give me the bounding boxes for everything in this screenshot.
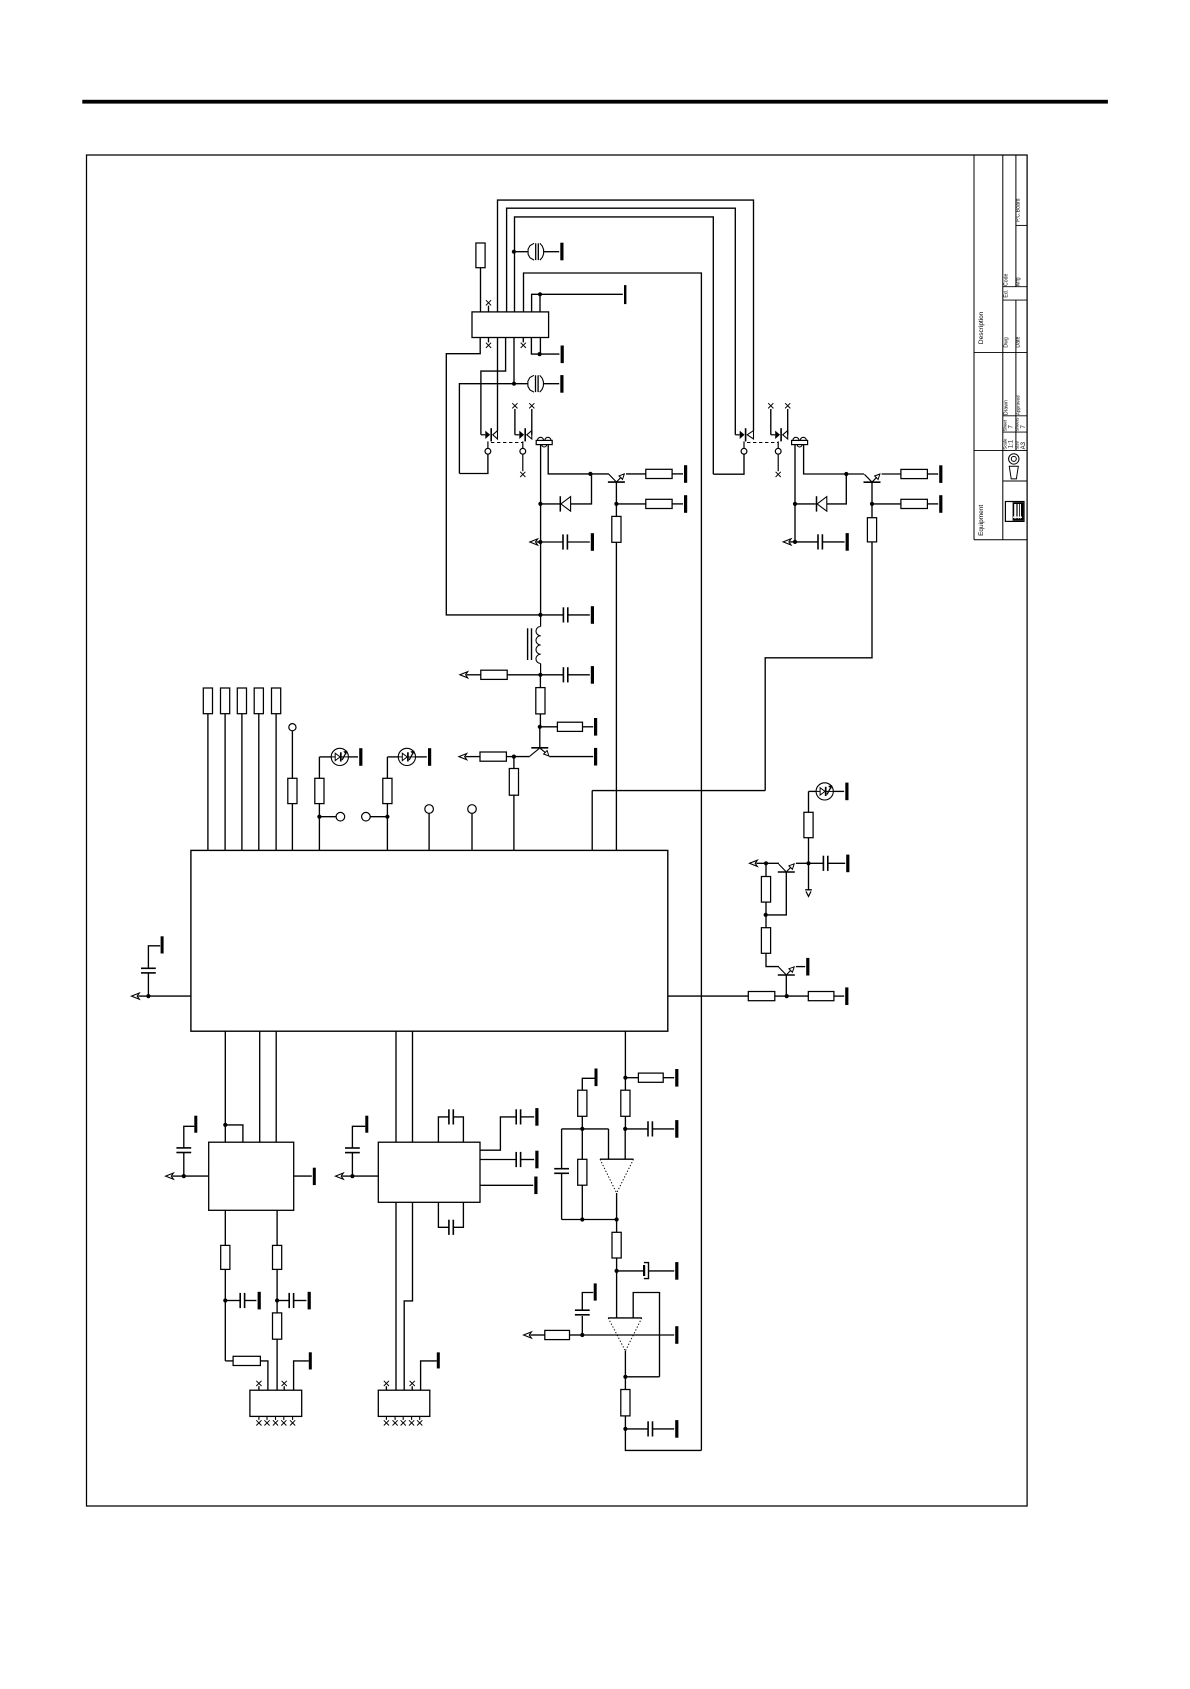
resistor R30 <box>221 1245 230 1269</box>
wire U2 out <box>616 1193 618 1220</box>
pin stub x (L conn b) <box>410 1381 415 1390</box>
resistor R36 <box>761 928 770 954</box>
wire U1 pin b4 <box>395 1031 397 1142</box>
resistor R23 <box>638 1073 663 1082</box>
wire Q6 stem <box>785 975 787 996</box>
wire D1 left <box>540 503 559 505</box>
connector pair P4 circle <box>775 441 781 477</box>
ground bar (C8) <box>675 1120 678 1138</box>
wire R31 to conn <box>260 1361 268 1390</box>
wire R12 to IC <box>513 795 515 850</box>
wire FL2 right pin <box>804 445 864 474</box>
capacitor C19 <box>516 1152 520 1167</box>
capacitor C5 <box>563 607 567 622</box>
wire C7 riser <box>147 973 149 996</box>
wire L top cap loop b <box>453 1117 463 1142</box>
wire U4 b1 <box>224 1210 226 1245</box>
wire FL2 left pin down <box>794 445 796 542</box>
off-page arrow A1 <box>530 539 541 545</box>
wire Q2 to R6 <box>872 503 901 505</box>
capacitor C7 <box>141 968 156 973</box>
wire to R23 <box>625 1077 638 1079</box>
node coil top junction <box>538 613 542 617</box>
wire D4 right <box>415 756 427 758</box>
LED D5 <box>816 783 833 800</box>
resistor R2 <box>646 469 672 478</box>
node M3 <box>580 1127 584 1131</box>
ground bar (top rail) <box>624 285 626 304</box>
wire D5 branch down <box>808 791 810 812</box>
wire M bottom rail <box>562 1219 617 1221</box>
resistor R21 <box>748 992 775 1001</box>
node Q1 base tap <box>588 472 592 476</box>
ground bar (R10) <box>594 718 597 736</box>
resistor R32 <box>273 1245 282 1269</box>
wire C5 feed <box>540 614 563 616</box>
wire R34 down <box>808 838 810 864</box>
wire R26 down <box>581 1185 583 1219</box>
ground bar (C1) <box>560 243 563 261</box>
IC U4 (sub block) <box>209 1142 294 1210</box>
wire F1 down <box>291 731 293 779</box>
ground bar (M7) <box>675 1326 678 1344</box>
svg-text:Scale: Scale <box>1002 438 1007 450</box>
wire U5 r1 <box>480 1117 516 1150</box>
node Q2 base tap <box>844 472 848 476</box>
off-page arrow A10 <box>750 860 767 866</box>
off-page arrow A7 <box>166 1173 184 1179</box>
svg-text:Dwg: Dwg <box>1004 337 1010 347</box>
wire C1 feed <box>515 251 529 253</box>
ground bar (C14) <box>258 1292 261 1310</box>
ground bar (C5) <box>591 606 594 624</box>
wire R13 to IC <box>207 714 209 851</box>
capacitor C9 <box>554 1169 569 1174</box>
ground bar (C7) <box>161 936 164 953</box>
wire F5 to IC <box>471 813 473 850</box>
wire C1 to ground <box>544 251 560 253</box>
node bus5/bus6 junction <box>538 292 542 296</box>
wire D1 right up <box>571 474 592 504</box>
connector pair P2 <box>515 428 532 441</box>
resistor R6 <box>901 499 928 508</box>
pin circle F4 <box>425 805 434 814</box>
wire C6 feed <box>540 674 563 676</box>
wire to F3 circle <box>370 816 387 818</box>
wire M8 down <box>624 1377 626 1390</box>
wire D4 branch down <box>386 757 388 778</box>
wire R29 down <box>624 1416 626 1429</box>
ground bar (C15) <box>308 1292 311 1310</box>
wire to R31 <box>225 1360 233 1362</box>
resistor R15 (pull stack) <box>237 688 246 714</box>
wire C8 to ground <box>652 1128 674 1130</box>
ground bar (D5) <box>845 783 848 801</box>
node D1 left junction <box>538 502 542 506</box>
wire J4 to Q4 <box>766 862 779 864</box>
wire R7 down route <box>765 542 872 791</box>
resistor R12 <box>509 769 518 796</box>
pin stub x (box bottom 6) <box>521 338 526 348</box>
node M1 <box>623 1076 627 1080</box>
resistor R11 <box>480 752 506 761</box>
wire K1 to U4 <box>184 1175 209 1177</box>
svg-text:Equipment: Equipment <box>978 505 985 536</box>
wire node to R22 <box>787 995 809 997</box>
wire K gnd pin <box>294 1361 309 1390</box>
wire U1 to Q6 rail <box>668 995 749 997</box>
capacitor C10 (polarized) <box>617 1263 675 1279</box>
resistor R16 (pull stack) <box>254 688 263 714</box>
wire J4 down <box>765 863 767 876</box>
svg-text:Mfg: Mfg <box>1016 277 1022 286</box>
node J5 <box>806 861 810 865</box>
connector pair P4 wires up <box>768 403 790 435</box>
wire L bottom cap loop <box>438 1202 449 1227</box>
wire R1 to box <box>480 268 482 312</box>
svg-text:Approved: Approved <box>1016 395 1021 415</box>
wire C5 to ground <box>568 614 590 616</box>
resistor R10 <box>557 722 582 731</box>
title block outline <box>974 155 1027 540</box>
transistor Q2 <box>864 474 881 482</box>
wire C3 to ground <box>567 541 589 543</box>
connector pair P1 circle <box>459 441 490 473</box>
node M2 <box>623 1127 627 1131</box>
wire C18 to ground <box>521 1116 535 1118</box>
page top rule <box>82 100 1108 104</box>
ground bar (C11) <box>594 1283 597 1300</box>
svg-text:P.C.Board: P.C.Board <box>1016 198 1022 221</box>
capacitor C12 <box>648 1421 652 1436</box>
wire pin7 <box>531 338 539 355</box>
node U1 left junction <box>146 994 150 998</box>
wire K2 down <box>224 1301 226 1361</box>
inductor T1 coil <box>536 615 541 675</box>
ground bar (D4) <box>428 748 431 766</box>
svg-text:Size: Size <box>1015 441 1020 450</box>
capacitor C6 <box>563 667 567 682</box>
capacitor C1 (electrolytic) <box>528 243 544 260</box>
resistor R29 <box>621 1390 630 1416</box>
wire Q2 stem <box>871 482 873 504</box>
wire U4 right pin <box>294 1175 312 1177</box>
resistor R24 <box>621 1090 630 1116</box>
wire Q3 stem <box>539 727 541 748</box>
node Q1 stem junction <box>614 502 618 506</box>
wire D5 right <box>833 790 844 792</box>
node Q2 stem junction <box>870 502 874 506</box>
resistor R26 <box>578 1159 587 1185</box>
wire C15 to ground <box>294 1300 307 1302</box>
capacitor C8 <box>648 1121 652 1136</box>
wire R10 feed <box>540 726 558 728</box>
wire C2 to ground <box>543 383 559 385</box>
node coil bottom junction <box>538 673 542 677</box>
node K bridge junction <box>223 1123 227 1127</box>
resistor R22 <box>808 992 834 1001</box>
wire R24 down <box>624 1116 626 1129</box>
node J6 <box>764 913 768 917</box>
off-page arrow A2 <box>783 539 795 545</box>
ground bar (Q6) <box>806 958 809 976</box>
wire R22 to ground <box>834 995 844 997</box>
wire C12 feed <box>625 1428 648 1430</box>
wire pin4 jog down <box>481 338 506 435</box>
node M8 <box>623 1375 627 1379</box>
IC U5 (sub block) <box>378 1142 480 1202</box>
wire R35 down <box>765 902 767 915</box>
pin circle F3 <box>362 812 371 821</box>
wire D2 right up <box>827 474 847 504</box>
wire C9 branch <box>561 1129 563 1169</box>
ground bar (L cap) <box>365 1116 368 1133</box>
wire M7 cross to ground <box>582 1334 674 1336</box>
capacitor C11 <box>575 1310 590 1315</box>
wire U5 b2 <box>404 1202 412 1390</box>
resistor R20 <box>383 778 392 803</box>
ground bar (R3) <box>684 495 687 513</box>
wire D5 left <box>809 790 817 792</box>
node M7 <box>580 1333 584 1337</box>
wire F2 node to IC <box>318 817 320 851</box>
wire M left gnd <box>582 1078 594 1090</box>
resistor R31 <box>233 1356 260 1365</box>
resistor R28 <box>545 1330 570 1339</box>
wire K cap top <box>184 1126 195 1148</box>
capacitor C17 <box>449 1109 453 1124</box>
node M9 <box>623 1427 627 1431</box>
node K1 <box>182 1174 186 1178</box>
wire M1 down <box>624 1078 626 1091</box>
node F2 junction <box>317 815 321 819</box>
resistor R17 (pull stack) <box>272 688 281 714</box>
wire loop1 (box pin3 up-over-right) <box>498 200 754 431</box>
capacitor C13 <box>176 1148 191 1153</box>
wire U5 r2 <box>480 1159 516 1161</box>
wire C21 to ground <box>828 862 845 864</box>
wire bus6 to ground <box>540 294 623 312</box>
LED D4 <box>398 748 415 765</box>
resistor R7 <box>867 518 876 542</box>
ground bar (R23) <box>675 1069 678 1087</box>
wire R3 to ground <box>672 503 683 505</box>
wire C8 feed <box>625 1128 648 1130</box>
wire C16 down <box>351 1153 353 1177</box>
wire C11 up to ground <box>582 1293 593 1311</box>
resistor R35 <box>761 877 770 903</box>
connector pair P1 <box>481 428 498 441</box>
wire U3 fb input <box>633 1293 659 1377</box>
resistor R34 <box>804 812 813 837</box>
node C4 junction <box>793 540 797 544</box>
connector pair P3 circle <box>713 441 747 474</box>
diode D1 <box>560 496 570 511</box>
IC U1 (main block) <box>191 850 668 1031</box>
wire M3 down <box>581 1129 583 1159</box>
wire R15 to IC <box>241 714 243 851</box>
wire R30 down <box>224 1269 226 1300</box>
ground bar (C4) <box>846 533 849 551</box>
wire U5 r3 <box>480 1184 533 1186</box>
inductor T1 core bars <box>528 628 532 660</box>
node pin7/8 junction <box>538 352 542 356</box>
wire K3 down <box>276 1301 278 1313</box>
wire loop4 (box pin6 up-over-right long drop) <box>524 273 702 1450</box>
wire Q1 emitter <box>626 473 646 475</box>
wire J5 down arrow <box>808 863 810 889</box>
ground bar (L conn) <box>437 1352 440 1368</box>
ground bar (C18) <box>535 1108 538 1126</box>
capacitor C1 tap node <box>512 250 516 254</box>
wire U1 pin to K bridge <box>224 1031 226 1142</box>
ground bar (K conn) <box>309 1352 312 1369</box>
wire C3 left <box>540 541 563 543</box>
wire loop3 (box pin5 up-over-right) <box>515 217 714 474</box>
ground bar (C2) <box>560 375 563 393</box>
wire C15 feed <box>277 1300 289 1302</box>
wire D4 left <box>387 756 398 758</box>
wire R11 to node <box>506 756 514 758</box>
wire R9 to Q3 <box>539 714 541 727</box>
capacitor C15 <box>289 1293 293 1308</box>
wire R20 down <box>386 804 388 817</box>
svg-text:A3: A3 <box>1021 441 1027 449</box>
wire R28 to node <box>570 1334 583 1336</box>
wire R6 to ground <box>927 503 938 505</box>
wire C12 to ground <box>653 1428 675 1430</box>
resistor R9 <box>536 688 545 714</box>
wire K bridge <box>225 1125 243 1142</box>
wire U1 pin riser <box>591 791 593 851</box>
wire R32 down <box>276 1269 278 1300</box>
node L1 <box>350 1174 354 1178</box>
svg-text:Sheets: Sheets <box>1015 417 1020 431</box>
wire loop2 (box pin4 up-over-right) <box>507 208 736 435</box>
ground bar (pin8) <box>561 346 564 364</box>
wire R8 right lead <box>507 674 540 676</box>
ground bar (C6) <box>591 666 594 684</box>
wire L cap top <box>352 1126 365 1148</box>
wire C9 down <box>561 1173 563 1219</box>
capacitor C18 <box>516 1109 520 1124</box>
wire D3 branch down <box>318 757 320 778</box>
ground bar (C10) <box>675 1262 678 1280</box>
wire F4 to IC <box>428 813 430 850</box>
wire FL1 left pin down <box>540 445 542 615</box>
wire M6 to U3 <box>616 1271 618 1318</box>
projection symbol <box>1009 454 1019 479</box>
ground bar (C19) <box>535 1151 538 1169</box>
connector box J1 <box>472 312 549 338</box>
wire Q4 emitter <box>796 862 809 864</box>
wire L bottom cap loop b <box>453 1202 463 1227</box>
capacitor C20 <box>449 1220 453 1235</box>
wire R16 to IC <box>258 714 260 851</box>
wire Q2 emitter <box>882 473 901 475</box>
node M5 <box>615 1217 619 1221</box>
resistor R13 (pull stack) <box>203 688 212 714</box>
dashed link P3-P4 <box>747 442 778 444</box>
node C2 tap <box>512 382 516 386</box>
capacitor C14 <box>240 1293 244 1308</box>
ground bar (C21) <box>846 855 849 873</box>
node F3 junction <box>385 815 389 819</box>
capacitor C21 <box>823 856 827 871</box>
ground bar (K cap) <box>194 1116 197 1133</box>
wire L top cap loop <box>438 1117 449 1142</box>
svg-text:Drawn: Drawn <box>1004 400 1010 415</box>
resistor R25 <box>578 1090 587 1116</box>
wire R5 to ground <box>927 473 938 475</box>
ground bar (C12) <box>675 1420 678 1438</box>
node D2 left junction <box>793 502 797 506</box>
wire L1 to U5 <box>352 1175 378 1177</box>
wire rail to C2 <box>459 384 528 474</box>
pin stub x (K conn b) <box>282 1381 287 1390</box>
wire M5 down <box>616 1220 618 1233</box>
svg-text:Description: Description <box>978 311 985 344</box>
transistor Q3 <box>530 748 549 756</box>
transistor Q1 <box>608 474 625 482</box>
resistor R4 <box>612 516 621 542</box>
LED D3 <box>331 748 348 765</box>
wire C6 to ground <box>568 674 590 676</box>
capacitor C2 (electrolytic) <box>528 375 544 392</box>
transistor Q6 <box>778 967 795 975</box>
pin circle F2 <box>336 812 345 821</box>
wire fb join <box>625 1376 659 1378</box>
off-page arrow A3 <box>460 672 481 678</box>
resistor R27 <box>612 1232 621 1258</box>
capacitor C16 <box>345 1148 360 1153</box>
wire coil to R9 <box>539 675 541 688</box>
resistor R14 (pull stack) <box>221 688 230 714</box>
wire C21 feed <box>809 862 824 864</box>
ground bar (R22) <box>845 987 848 1005</box>
node Q3 top junction <box>538 725 542 729</box>
off-page arrow A4 <box>459 754 480 760</box>
wire R10 to ground <box>583 726 594 728</box>
wire C4 to ground <box>822 541 844 543</box>
wire L gnd pin <box>421 1361 437 1390</box>
ground bar (R6) <box>939 495 942 513</box>
op-amp U2 <box>600 1159 634 1193</box>
transistor Q4 <box>778 864 795 872</box>
connector pair P2 circle <box>520 441 526 477</box>
wire FL1 right pin <box>548 445 609 474</box>
wire Q1 stem <box>615 482 617 504</box>
ground bar (U5 r3) <box>534 1177 537 1195</box>
wire R25 down <box>581 1116 583 1129</box>
wire C13 down <box>183 1152 185 1176</box>
wire U1 pin b5 <box>412 1031 414 1142</box>
pin circle F1 <box>289 724 296 731</box>
drawing border frame <box>87 155 1028 1506</box>
wire M3 cross <box>562 1128 609 1130</box>
node C3 junction <box>538 540 542 544</box>
wire Q3 node down <box>513 757 515 769</box>
wire Q1 collector drop <box>615 504 617 517</box>
wire C19 to ground <box>521 1159 535 1161</box>
node M4 <box>580 1217 584 1221</box>
wire R23 to ground <box>663 1077 674 1079</box>
ground bar (R5) <box>939 465 942 483</box>
wire U1 pin b2 <box>259 1031 261 1142</box>
pin stub x (K conn a) <box>256 1381 261 1390</box>
ground bar (R2) <box>684 465 687 483</box>
pin circle F5 <box>468 805 477 814</box>
